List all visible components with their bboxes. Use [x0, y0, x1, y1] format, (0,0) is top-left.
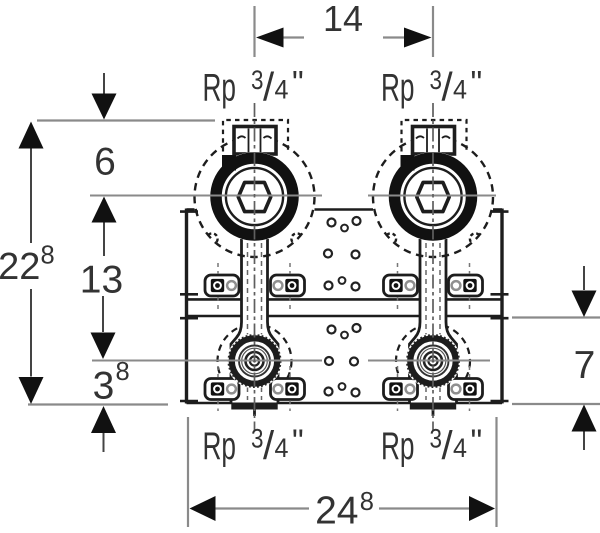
svg-text:8: 8	[360, 488, 374, 516]
svg-text:7: 7	[574, 344, 596, 387]
svg-text:22: 22	[0, 246, 40, 288]
svg-text:3: 3	[251, 65, 264, 95]
svg-text:/: /	[263, 66, 275, 110]
svg-text:6: 6	[94, 141, 116, 184]
svg-text:3: 3	[93, 364, 115, 407]
svg-text:8: 8	[116, 358, 130, 386]
svg-text:14: 14	[323, 0, 363, 39]
svg-text:24: 24	[315, 490, 358, 533]
svg-text:8: 8	[41, 242, 55, 270]
svg-text:Rp: Rp	[203, 67, 237, 110]
svg-text:4: 4	[275, 75, 289, 105]
svg-text:13: 13	[80, 259, 123, 302]
svg-text:": "	[292, 64, 304, 101]
